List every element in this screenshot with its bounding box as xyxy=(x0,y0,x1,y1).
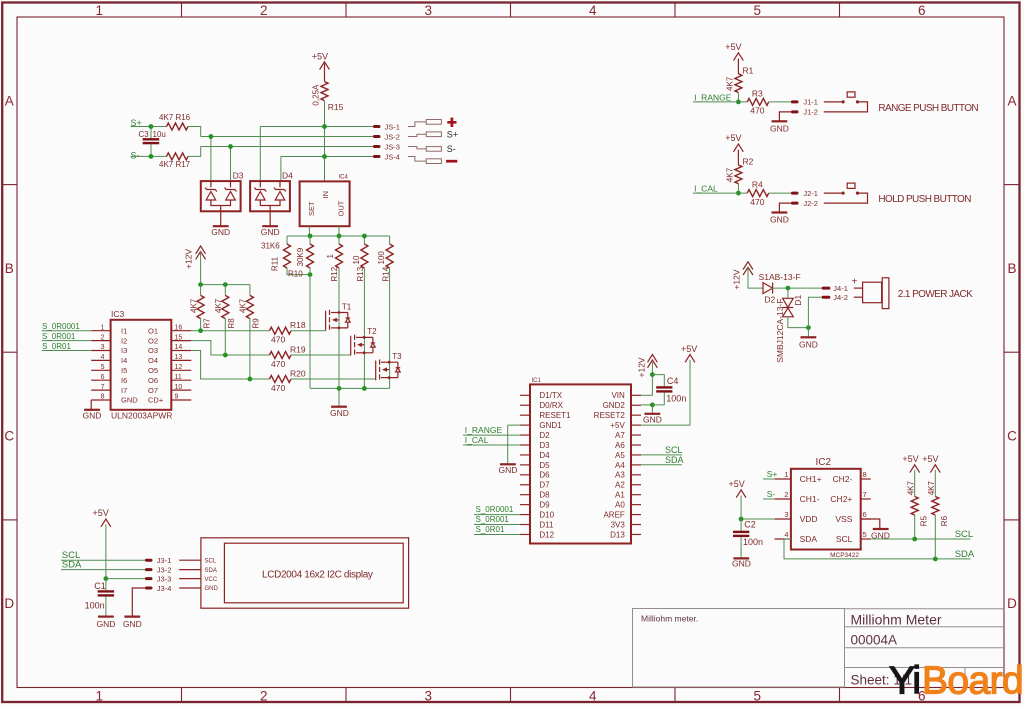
svg-text:Milliohm meter.: Milliohm meter. xyxy=(641,614,698,624)
svg-text:470: 470 xyxy=(271,359,285,369)
svg-text:D12: D12 xyxy=(539,530,554,539)
svg-text:C1: C1 xyxy=(94,581,106,591)
svg-text:13: 13 xyxy=(175,354,183,361)
svg-text:D13: D13 xyxy=(610,530,625,539)
svg-text:IC4: IC4 xyxy=(339,175,349,181)
svg-text:D1: D1 xyxy=(793,295,803,306)
svg-text:3: 3 xyxy=(424,688,432,703)
svg-text:I5: I5 xyxy=(121,366,127,375)
svg-text:D10: D10 xyxy=(539,510,554,519)
svg-text:+5V: +5V xyxy=(610,421,625,430)
svg-text:A: A xyxy=(5,93,14,108)
svg-text:O4: O4 xyxy=(148,356,158,365)
svg-text:S-: S- xyxy=(767,489,776,499)
svg-text:B: B xyxy=(5,261,14,276)
svg-text:CH1-: CH1- xyxy=(800,494,820,504)
svg-text:J3-4: J3-4 xyxy=(157,584,172,593)
svg-text:C4: C4 xyxy=(667,376,679,386)
svg-text:4K7: 4K7 xyxy=(726,167,735,182)
svg-text:Board: Board xyxy=(922,660,1023,703)
svg-text:I_RANGE: I_RANGE xyxy=(465,425,503,435)
svg-text:VDD: VDD xyxy=(800,514,818,524)
svg-text:S-: S- xyxy=(447,144,456,154)
svg-text:7: 7 xyxy=(863,490,867,499)
svg-text:SDA: SDA xyxy=(62,560,82,571)
svg-text:S_0R01: S_0R01 xyxy=(42,342,71,351)
svg-text:7: 7 xyxy=(101,384,105,391)
svg-text:470: 470 xyxy=(271,335,285,345)
svg-text:10: 10 xyxy=(352,255,361,264)
svg-text:J3-3: J3-3 xyxy=(157,574,172,583)
svg-text:6: 6 xyxy=(101,374,105,381)
svg-text:A7: A7 xyxy=(615,431,625,440)
svg-text:C3: C3 xyxy=(139,130,150,139)
svg-text:8: 8 xyxy=(101,394,105,401)
svg-text:2: 2 xyxy=(260,688,268,703)
svg-text:100: 100 xyxy=(377,251,386,265)
svg-text:I1: I1 xyxy=(121,326,127,335)
svg-text:I4: I4 xyxy=(121,356,127,365)
svg-text:AREF: AREF xyxy=(603,510,624,519)
svg-text:10u: 10u xyxy=(153,130,166,139)
svg-text:1: 1 xyxy=(95,688,103,703)
svg-text:470: 470 xyxy=(271,383,285,393)
svg-text:9: 9 xyxy=(175,394,179,401)
svg-text:OUT: OUT xyxy=(337,200,346,216)
svg-text:IN: IN xyxy=(321,191,330,199)
svg-text:D11: D11 xyxy=(539,520,554,529)
svg-text:VSS: VSS xyxy=(835,514,852,524)
svg-text:VCC: VCC xyxy=(205,577,218,583)
svg-text:D2: D2 xyxy=(539,431,550,440)
svg-text:3: 3 xyxy=(784,510,788,519)
svg-text:I6: I6 xyxy=(121,376,127,385)
svg-text:D9: D9 xyxy=(539,501,550,510)
svg-text:R19: R19 xyxy=(290,344,306,354)
svg-text:I2: I2 xyxy=(121,336,127,345)
svg-text:GND: GND xyxy=(499,465,518,475)
svg-text:VIN: VIN xyxy=(611,391,625,400)
svg-text:A2: A2 xyxy=(615,481,625,490)
svg-text:O1: O1 xyxy=(148,326,158,335)
svg-text:5: 5 xyxy=(101,364,105,371)
svg-text:6: 6 xyxy=(918,3,926,18)
svg-text:RANGE PUSH BUTTON: RANGE PUSH BUTTON xyxy=(878,103,978,114)
svg-text:SET: SET xyxy=(307,201,316,216)
svg-text:O3: O3 xyxy=(148,346,158,355)
svg-text:A3: A3 xyxy=(615,471,625,480)
svg-text:A5: A5 xyxy=(615,451,625,460)
svg-text:CD+: CD+ xyxy=(148,396,164,405)
svg-text:R5: R5 xyxy=(919,515,928,526)
svg-text:4: 4 xyxy=(589,688,597,703)
svg-text:D3: D3 xyxy=(233,170,244,180)
svg-text:470: 470 xyxy=(750,106,764,116)
svg-text:J3-2: J3-2 xyxy=(157,565,172,574)
svg-text:S+: S+ xyxy=(447,130,458,140)
svg-text:16: 16 xyxy=(175,324,183,331)
svg-text:S_0R01: S_0R01 xyxy=(476,525,505,534)
svg-text:GND: GND xyxy=(205,586,219,592)
svg-text:SDA: SDA xyxy=(205,568,217,574)
svg-text:JS-3: JS-3 xyxy=(385,142,400,151)
svg-text:GND: GND xyxy=(643,415,662,425)
svg-text:11: 11 xyxy=(175,374,182,381)
svg-text:A0: A0 xyxy=(615,501,625,510)
svg-text:4K7: 4K7 xyxy=(906,481,915,496)
svg-text:HOLD PUSH BUTTON: HOLD PUSH BUTTON xyxy=(878,194,971,205)
svg-text:2: 2 xyxy=(260,3,268,18)
svg-text:D4: D4 xyxy=(539,451,550,460)
svg-text:O6: O6 xyxy=(148,376,158,385)
svg-text:A1: A1 xyxy=(615,491,625,500)
svg-text:+5V: +5V xyxy=(902,454,918,464)
svg-text:S1AB-13-F: S1AB-13-F xyxy=(759,272,801,282)
svg-text:R12: R12 xyxy=(330,266,339,281)
svg-text:T1: T1 xyxy=(342,302,352,311)
svg-text:I_RANGE: I_RANGE xyxy=(694,92,732,102)
svg-text:5: 5 xyxy=(863,530,867,539)
svg-text:I3: I3 xyxy=(121,346,127,355)
svg-text:1: 1 xyxy=(95,3,103,18)
svg-text:GND: GND xyxy=(770,215,789,225)
svg-text:4K7: 4K7 xyxy=(927,481,936,496)
svg-text:R2: R2 xyxy=(743,157,754,167)
svg-text:J1-1: J1-1 xyxy=(803,98,818,107)
svg-text:S_0R001: S_0R001 xyxy=(42,332,76,341)
svg-text:4K7: 4K7 xyxy=(239,298,248,313)
svg-text:R7: R7 xyxy=(202,318,211,329)
svg-text:GND: GND xyxy=(97,619,116,629)
svg-text:4: 4 xyxy=(589,3,597,18)
svg-text:SCL: SCL xyxy=(665,445,683,455)
svg-text:15: 15 xyxy=(175,334,183,341)
svg-text:C: C xyxy=(1007,429,1017,444)
svg-text:R3: R3 xyxy=(752,89,763,99)
svg-text:SDA: SDA xyxy=(955,549,975,560)
svg-text:5: 5 xyxy=(753,3,761,18)
svg-text:2: 2 xyxy=(101,334,105,341)
svg-text:+12V: +12V xyxy=(637,357,647,377)
svg-text:S_0R0001: S_0R0001 xyxy=(476,505,514,514)
svg-text:SDA: SDA xyxy=(800,534,818,544)
svg-text:+5V: +5V xyxy=(681,344,697,354)
svg-text:IC3: IC3 xyxy=(111,309,125,319)
svg-text:R15: R15 xyxy=(328,102,344,112)
svg-text:GND1: GND1 xyxy=(539,421,562,430)
svg-text:Milliohm Meter: Milliohm Meter xyxy=(851,612,942,628)
svg-text:+5V: +5V xyxy=(93,508,109,518)
svg-text:A6: A6 xyxy=(615,441,625,450)
svg-text:JS-2: JS-2 xyxy=(385,132,400,141)
svg-text:D0/RX: D0/RX xyxy=(539,401,563,410)
svg-text:30K9: 30K9 xyxy=(296,247,305,266)
svg-text:D3: D3 xyxy=(539,441,550,450)
svg-text:2: 2 xyxy=(784,490,788,499)
svg-text:C: C xyxy=(4,429,14,444)
svg-text:J1-2: J1-2 xyxy=(803,108,818,117)
svg-text:Yi: Yi xyxy=(889,660,920,703)
svg-text:D5: D5 xyxy=(539,461,550,470)
svg-text:GND: GND xyxy=(770,123,789,133)
svg-text:JS-4: JS-4 xyxy=(385,152,400,161)
svg-text:100n: 100n xyxy=(85,601,105,611)
svg-text:GND: GND xyxy=(330,408,349,418)
svg-text:3: 3 xyxy=(424,3,432,18)
svg-text:5: 5 xyxy=(753,688,761,703)
svg-text:D8: D8 xyxy=(539,491,550,500)
svg-text:R11: R11 xyxy=(271,256,280,271)
svg-text:GND: GND xyxy=(799,339,818,349)
svg-text:CH2+: CH2+ xyxy=(830,494,852,504)
svg-text:31K6: 31K6 xyxy=(261,242,280,251)
svg-text:R20: R20 xyxy=(290,368,306,378)
svg-text:4K7: 4K7 xyxy=(726,76,735,91)
svg-text:T2: T2 xyxy=(367,327,377,336)
svg-text:O7: O7 xyxy=(148,386,158,395)
svg-text:R10: R10 xyxy=(288,270,303,279)
svg-text:4K7: 4K7 xyxy=(190,298,199,313)
svg-text:ULN2003APWR: ULN2003APWR xyxy=(111,410,172,420)
svg-text:D4: D4 xyxy=(282,170,293,180)
svg-text:10: 10 xyxy=(175,384,183,391)
svg-text:J2-2: J2-2 xyxy=(803,199,818,208)
svg-text:O2: O2 xyxy=(148,336,158,345)
svg-text:R18: R18 xyxy=(290,320,306,330)
svg-text:0,25A: 0,25A xyxy=(311,84,320,106)
svg-text:1: 1 xyxy=(101,324,105,331)
svg-text:J2-1: J2-1 xyxy=(803,189,818,198)
svg-text:JS-1: JS-1 xyxy=(385,122,400,131)
svg-text:+12V: +12V xyxy=(184,249,194,269)
svg-text:O5: O5 xyxy=(148,366,158,375)
svg-text:A: A xyxy=(1007,93,1016,108)
svg-text:I_CAL: I_CAL xyxy=(694,184,718,194)
svg-text:J4-2: J4-2 xyxy=(833,293,848,302)
svg-text:SCL: SCL xyxy=(955,529,973,540)
svg-text:GND: GND xyxy=(121,396,138,405)
svg-text:J4-1: J4-1 xyxy=(833,284,848,293)
svg-text:MCP3422: MCP3422 xyxy=(830,552,859,559)
svg-text:1: 1 xyxy=(326,254,335,259)
svg-text:GND: GND xyxy=(732,559,751,569)
svg-text:100n: 100n xyxy=(666,394,686,404)
svg-text:IC1: IC1 xyxy=(532,378,542,384)
svg-text:B: B xyxy=(1007,261,1016,276)
svg-text:R8: R8 xyxy=(227,318,236,329)
svg-text:GND: GND xyxy=(261,227,280,237)
svg-text:GND: GND xyxy=(211,227,230,237)
svg-text:+12V: +12V xyxy=(732,269,742,289)
svg-text:S+: S+ xyxy=(767,469,778,479)
svg-text:4K7 R17: 4K7 R17 xyxy=(159,160,191,169)
svg-text:+5V: +5V xyxy=(922,454,938,464)
svg-text:2.1 POWER JACK: 2.1 POWER JACK xyxy=(898,289,973,300)
svg-text:R14: R14 xyxy=(382,266,391,281)
svg-text:8: 8 xyxy=(863,470,867,479)
svg-text:D: D xyxy=(1007,596,1017,611)
svg-text:12: 12 xyxy=(175,364,183,371)
svg-text:100n: 100n xyxy=(743,537,763,547)
svg-text:00004A: 00004A xyxy=(851,633,898,648)
svg-text:D2: D2 xyxy=(764,294,775,304)
svg-text:3V3: 3V3 xyxy=(611,520,626,529)
svg-text:470: 470 xyxy=(750,197,764,207)
svg-text:4: 4 xyxy=(784,530,788,539)
svg-text:R1: R1 xyxy=(743,66,754,76)
svg-text:4K7: 4K7 xyxy=(214,298,223,313)
svg-text:D: D xyxy=(4,596,14,611)
svg-text:IC2: IC2 xyxy=(816,457,832,468)
svg-text:GND: GND xyxy=(83,410,102,420)
svg-text:SCL: SCL xyxy=(836,534,853,544)
svg-text:14: 14 xyxy=(175,344,183,351)
svg-text:3: 3 xyxy=(101,344,105,351)
svg-text:D7: D7 xyxy=(539,481,550,490)
svg-text:LCD2004 16x2 I2C display: LCD2004 16x2 I2C display xyxy=(262,569,373,580)
svg-text:+5V: +5V xyxy=(729,479,745,489)
svg-text:RESET2: RESET2 xyxy=(594,411,626,420)
svg-text:D6: D6 xyxy=(539,471,550,480)
svg-text:R4: R4 xyxy=(752,180,763,190)
svg-text:SCL: SCL xyxy=(205,558,217,564)
svg-text:+5V: +5V xyxy=(725,133,741,143)
svg-text:S_0R0001: S_0R0001 xyxy=(42,322,80,331)
svg-text:A4: A4 xyxy=(615,461,625,470)
svg-text:CH2-: CH2- xyxy=(833,474,853,484)
svg-text:GND2: GND2 xyxy=(603,401,626,410)
svg-text:4: 4 xyxy=(101,354,105,361)
svg-text:R6: R6 xyxy=(940,515,949,526)
svg-text:SMBJ12CA-13-F: SMBJ12CA-13-F xyxy=(775,299,785,363)
svg-text:1: 1 xyxy=(784,470,788,479)
svg-text:4K7 R16: 4K7 R16 xyxy=(159,113,191,122)
svg-text:I7: I7 xyxy=(121,386,127,395)
svg-text:6: 6 xyxy=(863,510,867,519)
svg-text:RESET1: RESET1 xyxy=(539,411,571,420)
svg-text:C2: C2 xyxy=(744,520,756,530)
svg-text:D1/TX: D1/TX xyxy=(539,391,562,400)
svg-text:S_0R001: S_0R001 xyxy=(476,515,510,524)
svg-text:GND: GND xyxy=(123,619,142,629)
svg-text:+5V: +5V xyxy=(725,42,741,52)
svg-text:+: + xyxy=(852,277,858,288)
svg-text:I_CAL: I_CAL xyxy=(465,435,489,445)
svg-text:R9: R9 xyxy=(252,318,261,329)
svg-text:SDA: SDA xyxy=(665,455,684,465)
svg-text:J3-1: J3-1 xyxy=(157,556,172,565)
svg-text:CH1+: CH1+ xyxy=(800,474,822,484)
svg-text:R13: R13 xyxy=(356,266,365,281)
svg-text:S-: S- xyxy=(131,150,140,160)
svg-text:+5V: +5V xyxy=(312,52,328,62)
svg-text:T3: T3 xyxy=(392,352,402,361)
